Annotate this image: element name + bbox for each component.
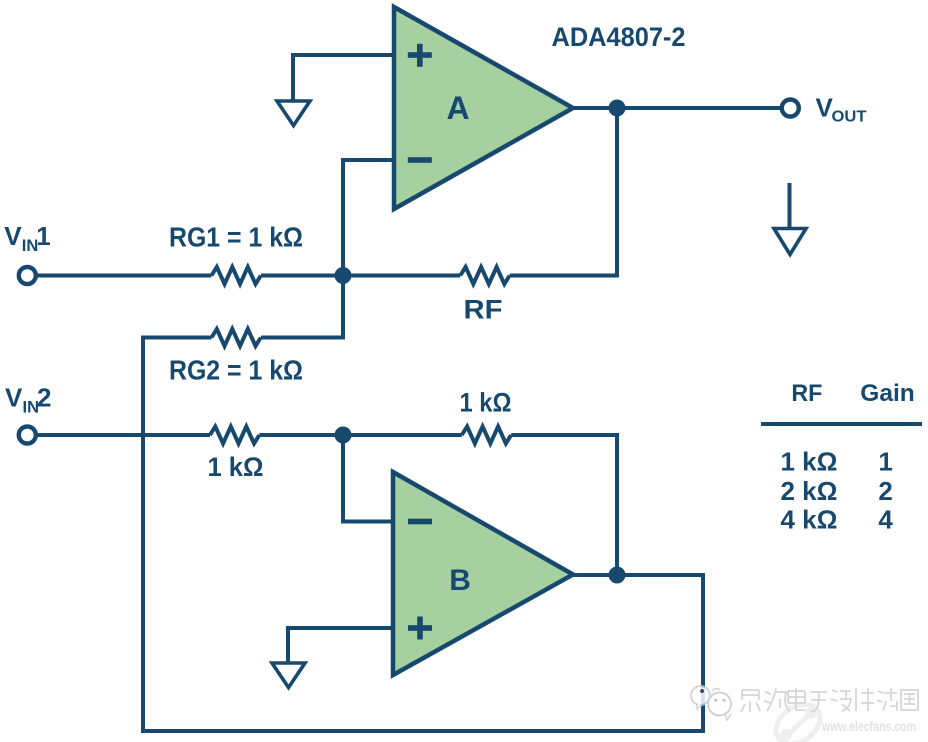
svg-text:B: B [449,564,471,597]
svg-text:1 kΩ: 1 kΩ [208,452,264,482]
svg-text:1 kΩ: 1 kΩ [460,388,512,418]
svg-text:4: 4 [878,505,893,535]
svg-text:ADA4807-2: ADA4807-2 [552,22,686,52]
svg-text:1: 1 [878,447,892,477]
svg-text:V: V [4,221,22,251]
svg-text:1 kΩ: 1 kΩ [781,447,838,477]
svg-text:2: 2 [37,383,51,413]
svg-text:RF: RF [464,295,503,325]
svg-text:1: 1 [36,221,50,251]
svg-text:www.elecfans.com: www.elecfans.com [821,719,916,734]
svg-text:RG1 = 1 kΩ: RG1 = 1 kΩ [169,221,303,252]
svg-text:V: V [5,383,23,413]
svg-text:A: A [447,90,470,126]
svg-text:RF: RF [791,380,822,407]
svg-text:Gain: Gain [860,380,915,407]
svg-text:2 kΩ: 2 kΩ [781,476,838,506]
svg-text:2: 2 [878,476,892,506]
svg-text:RG2 = 1 kΩ: RG2 = 1 kΩ [169,355,303,386]
svg-text:4 kΩ: 4 kΩ [781,505,838,535]
svg-text:OUT: OUT [832,109,867,126]
